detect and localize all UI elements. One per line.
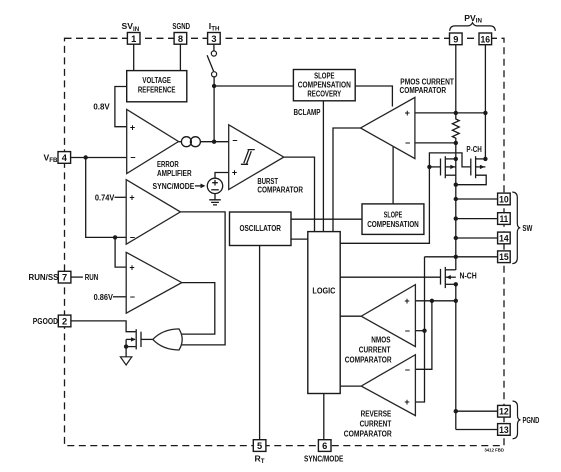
- reverse current comparator U13: [361, 355, 415, 416]
- node NMOS + rail dot: [454, 299, 458, 303]
- wire PMOS comparator output to logic: [333, 128, 361, 232]
- wire burst comparator + from voltage source: [215, 173, 229, 179]
- svg-text:SW: SW: [522, 223, 533, 233]
- svg-text:RUN/SS: RUN/SS: [29, 272, 59, 282]
- svg-text:0.74V: 0.74V: [95, 192, 115, 202]
- node - input dot: [454, 141, 458, 145]
- svg-text:6: 6: [322, 441, 327, 451]
- transistor Q3 channel bar: [444, 267, 446, 288]
- wire 0.74V stub: [115, 196, 127, 198]
- wire VFB to 0.86V comparator +: [115, 237, 126, 267]
- node VFB dot: [84, 155, 88, 159]
- node Q3 source dot: [454, 282, 458, 286]
- current source G1 circle right: [190, 137, 200, 147]
- svg-text:4: 4: [62, 153, 68, 163]
- wire NMOS - input: [415, 330, 424, 332]
- node NMOS - dot: [422, 329, 426, 333]
- node ITH branch dot: [212, 84, 216, 88]
- node + input pin9 dot: [454, 111, 458, 115]
- pin 13 PGND: [498, 424, 511, 436]
- svg-text:PGOOD: PGOOD: [33, 316, 58, 326]
- PMOS current comparator U11: [361, 97, 415, 158]
- svg-text:5: 5: [257, 441, 262, 451]
- node error amp output dot: [212, 140, 216, 144]
- pin 14 SW: [498, 232, 511, 244]
- SYNC/MODE arrowhead: [201, 184, 206, 189]
- svg-text:13: 13: [499, 425, 509, 435]
- pin 5 RT: [253, 440, 266, 452]
- comparator 0.86V U9: [126, 252, 182, 313]
- transistor Q3 body arrow: [446, 275, 451, 279]
- NMOS current comparator U12: [361, 285, 415, 347]
- pin 1 SVIN: [127, 33, 140, 45]
- pin 3 ITH: [208, 33, 221, 45]
- wire PGND to pin12: [456, 410, 498, 412]
- transistor Q1 body arrow: [450, 165, 455, 169]
- ground open triangle: [120, 357, 131, 365]
- wire pin7 RUN stub: [71, 276, 83, 278]
- transistor Q1 body lead: [445, 166, 456, 168]
- slope compensation recovery box U3: [293, 70, 355, 101]
- comparator 0.74V U8: [126, 180, 180, 245]
- svg-text:AMPLIFIER: AMPLIFIER: [157, 168, 192, 178]
- wire SW to pin11: [456, 218, 498, 220]
- wire error amp output: [179, 141, 182, 143]
- pin 7 RUN/SS: [58, 271, 71, 283]
- voltage source V1 plus sign: [212, 180, 218, 186]
- transistor Q4 body arrow: [131, 337, 136, 341]
- svg-text:0.86V: 0.86V: [94, 292, 114, 302]
- transistor Q1 drain lead: [445, 174, 456, 176]
- pin 4 VFB: [58, 152, 71, 164]
- svg-text:16: 16: [481, 34, 491, 44]
- wire ITH vertical: [213, 77, 215, 142]
- transistor Q4 gate lead from OR gate: [141, 338, 153, 340]
- svg-text:12: 12: [499, 407, 509, 417]
- svg-text:7: 7: [62, 273, 67, 283]
- wire reverse comparator output to logic: [340, 385, 361, 387]
- svg-text:SGND: SGND: [172, 21, 190, 31]
- pin 16 PVIN: [479, 33, 492, 45]
- wire 0.86V comparator output to OR gate: [179, 283, 215, 335]
- wire NMOS + input: [415, 300, 455, 302]
- switch S1 circle top: [211, 51, 216, 56]
- pin 8 SGND: [174, 33, 187, 45]
- brace SW: [512, 192, 520, 264]
- wire PMOS comparator - input: [415, 142, 456, 144]
- transistor Q3 body lead: [445, 276, 456, 278]
- svg-text:REFERENCE: REFERENCE: [138, 85, 176, 95]
- wire ITH node to slope compensation recovery: [214, 85, 293, 87]
- voltage source V1 circle: [207, 178, 222, 193]
- svg-text:COMPARATOR: COMPARATOR: [344, 429, 393, 439]
- wire SW to pin14: [456, 237, 498, 239]
- ground below voltage source: [209, 200, 221, 205]
- svg-text:8: 8: [178, 34, 183, 44]
- wire SW rail: [455, 185, 457, 270]
- svg-text:+: +: [130, 122, 135, 132]
- svg-text:CURRENT: CURRENT: [359, 345, 391, 355]
- pin 12 PGND: [498, 405, 511, 417]
- voltage source V1 minus sign: [211, 189, 219, 191]
- transistor Q2 drain lead to SW node: [456, 175, 486, 185]
- transistor Q1 source lead: [445, 158, 456, 160]
- svg-text:+: +: [404, 296, 409, 306]
- wire pin2 PGOOD to open-drain FET: [71, 321, 136, 332]
- wire NCH gate drive from logic: [340, 276, 440, 278]
- transistor Q4 source lead: [126, 346, 135, 348]
- pin 2 PGOOD: [58, 315, 71, 327]
- logic box U7: [308, 232, 340, 394]
- wire PMOS gate drive from logic: [340, 153, 471, 243]
- svg-text:PGND: PGND: [523, 415, 540, 425]
- wire pin15 extended left: [425, 256, 498, 258]
- wire 0.8V reference to error amp +: [115, 87, 127, 127]
- node pin10 dot: [454, 197, 458, 201]
- svg-text:11: 11: [500, 214, 509, 224]
- transistor Q2 body lead: [476, 166, 486, 168]
- current source G1 circle left: [181, 137, 191, 147]
- transistor Q1 channel bar: [444, 156, 446, 178]
- wire NMOS - sense vertical: [415, 257, 424, 402]
- transistor Q4 PGOOD FET channel bar: [135, 329, 137, 349]
- svg-text:NMOS: NMOS: [371, 334, 390, 344]
- wire slope compensation output up to PMOS comparator bottom edge: [392, 147, 394, 204]
- svg-text:3412 FBD: 3412 FBD: [484, 448, 504, 453]
- wire slope comp recovery to PMOS comparator top edge: [355, 86, 392, 107]
- svg-text:REVERSE: REVERSE: [361, 408, 392, 418]
- svg-text:−: −: [130, 233, 135, 243]
- transistor Q3 drain lead: [445, 269, 456, 271]
- OR gate U5: [153, 329, 182, 350]
- wire PGND rail: [455, 284, 457, 429]
- node Q2 source dot: [483, 157, 487, 161]
- wire pin16 down to PMOS source: [484, 45, 486, 159]
- svg-text:VFB: VFB: [44, 152, 59, 164]
- pin 10 SW: [498, 193, 511, 205]
- svg-text:−: −: [405, 365, 410, 375]
- svg-text:−: −: [405, 138, 410, 148]
- SYNC/MODE arrow shaft: [195, 185, 201, 187]
- transistor Q2 channel bar: [475, 156, 477, 178]
- transistor Q4 body lead: [126, 338, 135, 340]
- IC dashed border: [65, 38, 505, 445]
- svg-text:RECOVERY: RECOVERY: [307, 89, 341, 99]
- svg-text:9: 9: [453, 34, 458, 44]
- svg-text:SVIN: SVIN: [122, 21, 140, 33]
- oscillator box U6: [230, 212, 292, 246]
- wire voltage source to ground: [214, 194, 216, 200]
- wire pin4 VFB to error amp -: [71, 157, 127, 159]
- wire current source to burst comparator -: [200, 141, 228, 143]
- node NMOS + branch dot: [430, 299, 434, 303]
- svg-text:BCLAMP: BCLAMP: [294, 107, 321, 117]
- node SW dot: [454, 183, 458, 187]
- transistor Q1 sense PMOS gate bar: [440, 159, 442, 176]
- svg-text:SYNC/MODE: SYNC/MODE: [304, 453, 344, 463]
- wire pin3 to switch: [213, 44, 215, 51]
- burst comparator U10: [229, 125, 284, 190]
- pin 11 SW: [498, 213, 511, 225]
- switch S1 circle bottom: [212, 72, 217, 77]
- transistor Q2 source lead: [476, 158, 486, 160]
- svg-text:LOGIC: LOGIC: [312, 285, 335, 295]
- switch S1 arm: [207, 55, 214, 71]
- wire pin1 to voltage reference: [133, 44, 135, 70]
- svg-text:COMPARATOR: COMPARATOR: [345, 355, 392, 365]
- transistor Q3 NMOS gate bar: [440, 269, 442, 285]
- wire gate branch to Q1: [429, 166, 440, 168]
- svg-text:1: 1: [131, 34, 136, 44]
- node pin14 dot: [454, 236, 458, 240]
- svg-text:COMPENSATION: COMPENSATION: [367, 219, 419, 229]
- brace PGND: [513, 401, 521, 439]
- hysteresis symbol: [241, 150, 255, 165]
- svg-text:SLOPE: SLOPE: [384, 209, 403, 219]
- pin 9 PVIN: [450, 33, 463, 45]
- wire pin8 to voltage reference: [179, 44, 181, 70]
- svg-text:0.8V: 0.8V: [93, 101, 110, 111]
- wire NMOS comparator output to logic: [340, 315, 361, 317]
- node + input pin16 dot: [483, 111, 487, 115]
- node pin11 dot: [454, 216, 458, 220]
- wire oscillator to slope compensation: [291, 218, 362, 220]
- svg-text:−: −: [405, 326, 410, 336]
- wire oscillator to logic: [291, 238, 308, 240]
- svg-text:ITH: ITH: [209, 21, 220, 33]
- voltage reference box U2: [127, 71, 187, 102]
- op-amp error amplifier U1: [127, 109, 179, 173]
- transistor Q4 gate bar: [140, 332, 142, 347]
- svg-text:14: 14: [499, 233, 509, 243]
- node pin12 dot: [454, 409, 458, 413]
- wire 0.86V stub: [113, 296, 126, 298]
- resistor RSENSE: [452, 113, 459, 143]
- svg-text:10: 10: [499, 194, 509, 204]
- svg-text:2: 2: [62, 316, 67, 326]
- brace PVIN: [450, 23, 496, 31]
- wire VFB down to 0.74V comparator -: [86, 158, 127, 238]
- svg-text:P-CH: P-CH: [466, 144, 481, 154]
- wire burst comparator output to logic: [284, 157, 315, 232]
- svg-text:+: +: [404, 397, 409, 407]
- wire logic to pin6 SYNC/MODE: [323, 394, 325, 440]
- wire BCLAMP vertical to logic: [322, 101, 324, 232]
- node gate junction dot: [427, 165, 431, 169]
- wire Q4 body-source to ground: [125, 339, 127, 356]
- svg-text:RT: RT: [255, 453, 265, 465]
- wire PMOS comparator + input: [415, 112, 486, 114]
- svg-text:SYNC/MODE: SYNC/MODE: [153, 181, 195, 191]
- slope compensation box U4: [362, 204, 424, 235]
- node pin15 dot: [454, 255, 458, 259]
- svg-text:+: +: [405, 108, 410, 118]
- transistor Q2 body arrow: [480, 165, 485, 169]
- node VFB comparator branch dot: [113, 235, 117, 239]
- svg-text:N-CH: N-CH: [460, 270, 477, 280]
- svg-text:3: 3: [211, 34, 216, 44]
- wire 0.74V comparator output to OR gate: [180, 212, 225, 345]
- svg-text:−: −: [130, 292, 135, 302]
- svg-text:+: +: [129, 193, 134, 203]
- pin 15 SW: [498, 251, 511, 263]
- wire sense rail through P-CH: [455, 143, 457, 185]
- wire pin9 down to + node: [455, 45, 457, 113]
- pin 6 SYNC/MODE: [318, 440, 331, 452]
- node Q4 source dot: [124, 344, 128, 348]
- wire oscillator to pin5 RT: [259, 246, 261, 440]
- svg-text:−: −: [130, 152, 135, 162]
- node Q1 source dot: [454, 157, 458, 161]
- transistor Q3 source lead: [445, 283, 456, 285]
- svg-text:COMPARATOR: COMPARATOR: [400, 85, 447, 95]
- svg-text:RUN: RUN: [85, 272, 99, 282]
- wire SW to pin10: [456, 198, 498, 200]
- wire PGND to pin13: [456, 429, 498, 431]
- svg-text:+: +: [129, 262, 134, 272]
- svg-text:PVIN: PVIN: [464, 13, 482, 25]
- transistor Q2 power PMOS gate bar: [470, 159, 472, 176]
- svg-text:CURRENT: CURRENT: [360, 418, 392, 428]
- wire reverse - sense vertical: [415, 301, 432, 370]
- svg-text:−: −: [232, 136, 237, 146]
- svg-text:COMPARATOR: COMPARATOR: [257, 184, 303, 194]
- svg-text:OSCILLATOR: OSCILLATOR: [239, 223, 281, 233]
- svg-text:+: +: [232, 167, 237, 177]
- svg-text:15: 15: [499, 252, 509, 262]
